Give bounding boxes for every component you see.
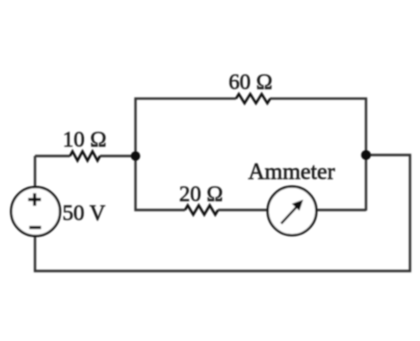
svg-text:50 V: 50 V <box>62 200 105 225</box>
svg-text:60 Ω: 60 Ω <box>229 69 273 94</box>
svg-text:20 Ω: 20 Ω <box>179 181 223 206</box>
svg-text:10 Ω: 10 Ω <box>63 127 107 152</box>
svg-text:Ammeter: Ammeter <box>248 159 335 184</box>
